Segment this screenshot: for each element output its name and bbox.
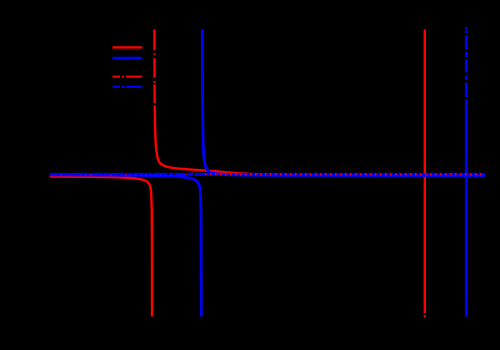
legend sample: blue dash-dot bbox=[113, 86, 143, 88]
black legend-text occlusions over red curve bbox=[153, 50, 157, 53]
blue solid curve, right branch (pole 1) bbox=[202, 30, 485, 176]
legend sample: blue solid bbox=[113, 57, 143, 59]
blue vertical line (pole 2) x=466.3 bbox=[465, 27, 468, 29]
red solid curve, right branch (pole 1) bbox=[154, 30, 485, 176]
blue solid curve, left branch (pole 1) bbox=[50, 175, 201, 317]
red dash-dot horizontal line, right segment bbox=[205, 173, 485, 175]
red vertical line (pole 2) x=424.8 bbox=[424, 30, 426, 314]
red dash-dot horizontal line, left segment bbox=[50, 174, 205, 176]
blue dash-dot horizontal line y=174.1 bbox=[50, 173, 485, 176]
legend sample: red solid bbox=[113, 46, 143, 48]
red solid curve, left branch (pole 1) bbox=[50, 177, 152, 317]
legend sample: red dash-dot bbox=[113, 76, 143, 78]
